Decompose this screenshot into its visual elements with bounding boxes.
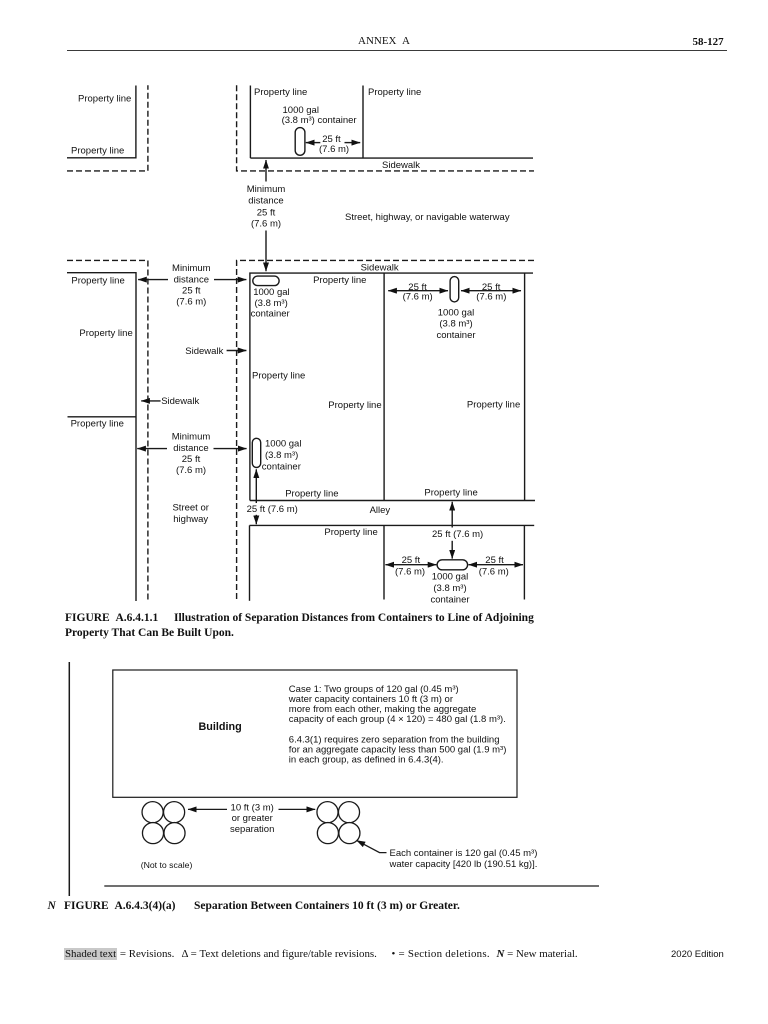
wire: each-container callout arrow bbox=[357, 840, 387, 852]
svg-text:Minimum: Minimum bbox=[247, 184, 286, 195]
wire: bottom block divider bbox=[383, 525, 385, 599]
svg-text:(7.6 m): (7.6 m) bbox=[319, 144, 349, 155]
svg-text:(3.8 m³): (3.8 m³) bbox=[255, 298, 288, 309]
wire: sidewalk pointer arrow into block bbox=[227, 350, 247, 352]
wire: alley left arrow down bbox=[255, 515, 257, 524]
wire: bottom block top line bbox=[250, 524, 535, 526]
wire: top block street dashed corner bbox=[237, 85, 534, 171]
svg-text:Property line: Property line bbox=[78, 93, 131, 104]
svg-text:1000 gal: 1000 gal bbox=[438, 307, 474, 318]
caption figure A.6.4.1.1 bbox=[65, 612, 158, 624]
svg-text:(3.8 m³): (3.8 m³) bbox=[265, 450, 298, 461]
svg-text:(3.8 m³): (3.8 m³) bbox=[439, 318, 472, 329]
svg-text:container: container bbox=[436, 330, 475, 341]
wire: alley right arrow down to capsule bbox=[451, 541, 453, 559]
header rule bbox=[67, 50, 727, 51]
wire: min distance 2 arrow left bbox=[137, 448, 167, 450]
wire: min distance 1 arrow left bbox=[138, 279, 168, 281]
capacitor: middle-right vertical capsule container bbox=[450, 277, 459, 302]
svg-text:Sidewalk: Sidewalk bbox=[382, 160, 420, 171]
wire: alley left arrow up to capsule bbox=[255, 469, 257, 503]
svg-text:25 ft: 25 ft bbox=[402, 555, 421, 566]
wire: left street dashed corner bbox=[67, 260, 148, 601]
svg-text:25 ft: 25 ft bbox=[485, 555, 504, 566]
wire: bottom block left edge bbox=[249, 525, 251, 600]
svg-text:25 ft: 25 ft bbox=[182, 286, 201, 297]
wire: min distance 2 arrow right bbox=[214, 448, 247, 450]
svg-text:(7.6 m): (7.6 m) bbox=[476, 292, 506, 303]
svg-text:25 ft: 25 ft bbox=[257, 207, 276, 218]
svg-text:(Not to scale): (Not to scale) bbox=[141, 860, 193, 870]
node: building box bbox=[113, 670, 517, 797]
svg-text:25 ft (7.6 m): 25 ft (7.6 m) bbox=[432, 529, 483, 540]
wire: top block 25 ft arrow right bbox=[345, 142, 361, 144]
svg-text:Property line: Property line bbox=[71, 419, 124, 430]
svg-text:Property line: Property line bbox=[254, 87, 307, 98]
svg-text:distance: distance bbox=[173, 443, 208, 454]
capacitor: bottom horizontal capsule container bbox=[437, 560, 468, 570]
wire: top-left street corner (dashed) bbox=[67, 85, 148, 171]
wire: bottom block right edge bbox=[523, 525, 525, 599]
wire: revision bar bbox=[68, 662, 70, 896]
svg-text:1000 gal: 1000 gal bbox=[265, 439, 301, 450]
wire: left sidewalk pointer arrow bbox=[141, 400, 160, 402]
node: right container group circles bbox=[317, 802, 338, 823]
svg-text:(7.6 m): (7.6 m) bbox=[395, 567, 425, 578]
svg-text:Street or: Street or bbox=[172, 503, 208, 514]
svg-text:(3.8 m³): (3.8 m³) bbox=[433, 583, 466, 594]
wire: bottom 25ft double arrow left bbox=[385, 564, 436, 566]
node: left container group circles bbox=[142, 802, 163, 823]
svg-text:Property line: Property line bbox=[328, 400, 381, 411]
svg-text:highway: highway bbox=[173, 514, 208, 525]
svg-text:Street, highway, or navigable: Street, highway, or navigable waterway bbox=[345, 212, 510, 223]
wire: middle block divider property line bbox=[383, 273, 385, 500]
wire: top block sidewalk line (solid horizontal) bbox=[250, 157, 533, 159]
svg-text:(3.8 m³) container: (3.8 m³) container bbox=[282, 115, 357, 126]
svg-text:Property line: Property line bbox=[313, 275, 366, 286]
wire: street band minimum distance arrow down bbox=[265, 231, 267, 272]
wire: mid-right 25ft double arrow left bbox=[388, 290, 448, 292]
svg-text:or greater: or greater bbox=[232, 813, 273, 824]
svg-text:distance: distance bbox=[174, 275, 209, 286]
svg-text:Sidewalk: Sidewalk bbox=[161, 396, 199, 407]
svg-text:(7.6 m): (7.6 m) bbox=[251, 219, 281, 230]
svg-text:in each group, as defined in 6: in each group, as defined in 6.4.3(4). bbox=[289, 755, 444, 766]
svg-text:distance: distance bbox=[248, 196, 283, 207]
node: separation label bbox=[230, 802, 274, 835]
svg-text:Property line: Property line bbox=[252, 371, 305, 382]
node: each container label bbox=[389, 848, 538, 870]
svg-text:25 ft: 25 ft bbox=[182, 454, 201, 465]
svg-text:(7.6 m): (7.6 m) bbox=[403, 292, 433, 303]
svg-text:25 ft (7.6 m): 25 ft (7.6 m) bbox=[247, 504, 298, 515]
wire: left property solid corner bbox=[67, 273, 136, 601]
svg-text:Sidewalk: Sidewalk bbox=[185, 346, 223, 357]
svg-text:(7.6 m): (7.6 m) bbox=[176, 297, 206, 308]
svg-text:container: container bbox=[251, 309, 290, 320]
svg-text:Property line: Property line bbox=[285, 489, 338, 500]
svg-text:1000 gal: 1000 gal bbox=[432, 571, 468, 582]
svg-text:Property line: Property line bbox=[467, 400, 520, 411]
wire: alley right arrow up bbox=[451, 502, 453, 528]
wire: separation arrow left segment bbox=[188, 808, 227, 810]
svg-text:Minimum: Minimum bbox=[172, 432, 211, 443]
wire: top block dividing property line (solid vertical) bbox=[362, 86, 364, 159]
svg-text:container: container bbox=[262, 462, 301, 473]
svg-text:container: container bbox=[430, 595, 469, 606]
svg-text:Building: Building bbox=[199, 721, 242, 733]
wire: middle block outline bbox=[250, 273, 533, 500]
wire: street band minimum distance arrow up bbox=[265, 160, 267, 182]
svg-text:Property line: Property line bbox=[324, 527, 377, 538]
wire: top block 25 ft arrow left bbox=[306, 142, 321, 144]
svg-text:separation: separation bbox=[230, 824, 274, 835]
capacitor: middle-left horizontal capsule container bbox=[253, 276, 279, 286]
svg-text:Each container is 120 gal (0.4: Each container is 120 gal (0.45 m³) bbox=[390, 848, 538, 859]
svg-text:Property line: Property line bbox=[71, 276, 124, 287]
footer legend bbox=[64, 948, 174, 960]
wire: mid-right 25ft double arrow right bbox=[461, 290, 521, 292]
svg-text:10 ft (3 m): 10 ft (3 m) bbox=[231, 802, 274, 813]
svg-text:Property line: Property line bbox=[368, 87, 421, 98]
svg-text:Property line: Property line bbox=[71, 146, 124, 157]
svg-text:water capacity [420 lb (190.51: water capacity [420 lb (190.51 kg)]. bbox=[389, 859, 538, 870]
svg-text:(7.6 m): (7.6 m) bbox=[479, 567, 509, 578]
wire: top block left property line (solid vertical) bbox=[249, 86, 251, 159]
wire: min distance 1 arrow right bbox=[214, 279, 246, 281]
svg-text:(7.6 m): (7.6 m) bbox=[176, 465, 206, 476]
wire: middle block right edge bbox=[524, 273, 526, 500]
svg-text:Alley: Alley bbox=[370, 505, 391, 516]
wire: top-left property corner (solid) bbox=[67, 86, 136, 158]
wire: left property stub line bbox=[68, 416, 137, 418]
footer: edition bbox=[671, 949, 724, 960]
wire: bottom 25ft double arrow right bbox=[469, 564, 524, 566]
header: page number 58-127 bbox=[693, 36, 724, 48]
capacitor: middle-left vertical capsule container bbox=[252, 438, 260, 467]
svg-text:Property line: Property line bbox=[79, 328, 132, 339]
capacitor: top block 1000 gal container capsule bbox=[295, 128, 305, 156]
svg-text:Property line: Property line bbox=[424, 488, 477, 499]
node: case 1 paragraph bbox=[288, 684, 507, 766]
svg-text:Minimum: Minimum bbox=[172, 263, 211, 274]
wire: middle block bottom line bbox=[250, 500, 535, 502]
caption figure A.6.4.3(4)(a) with N marker bbox=[48, 900, 56, 912]
svg-text:1000 gal: 1000 gal bbox=[253, 287, 289, 298]
svg-text:Sidewalk: Sidewalk bbox=[361, 263, 399, 274]
svg-text:capacity of each group (4 × 12: capacity of each group (4 × 120) = 480 g… bbox=[289, 714, 506, 725]
wire: figure 2 bottom rule bbox=[104, 885, 599, 887]
header: ANNEX A bbox=[358, 35, 410, 47]
wire: separation arrow right segment bbox=[279, 808, 316, 810]
wire: middle band street dashed corner bbox=[237, 260, 534, 601]
